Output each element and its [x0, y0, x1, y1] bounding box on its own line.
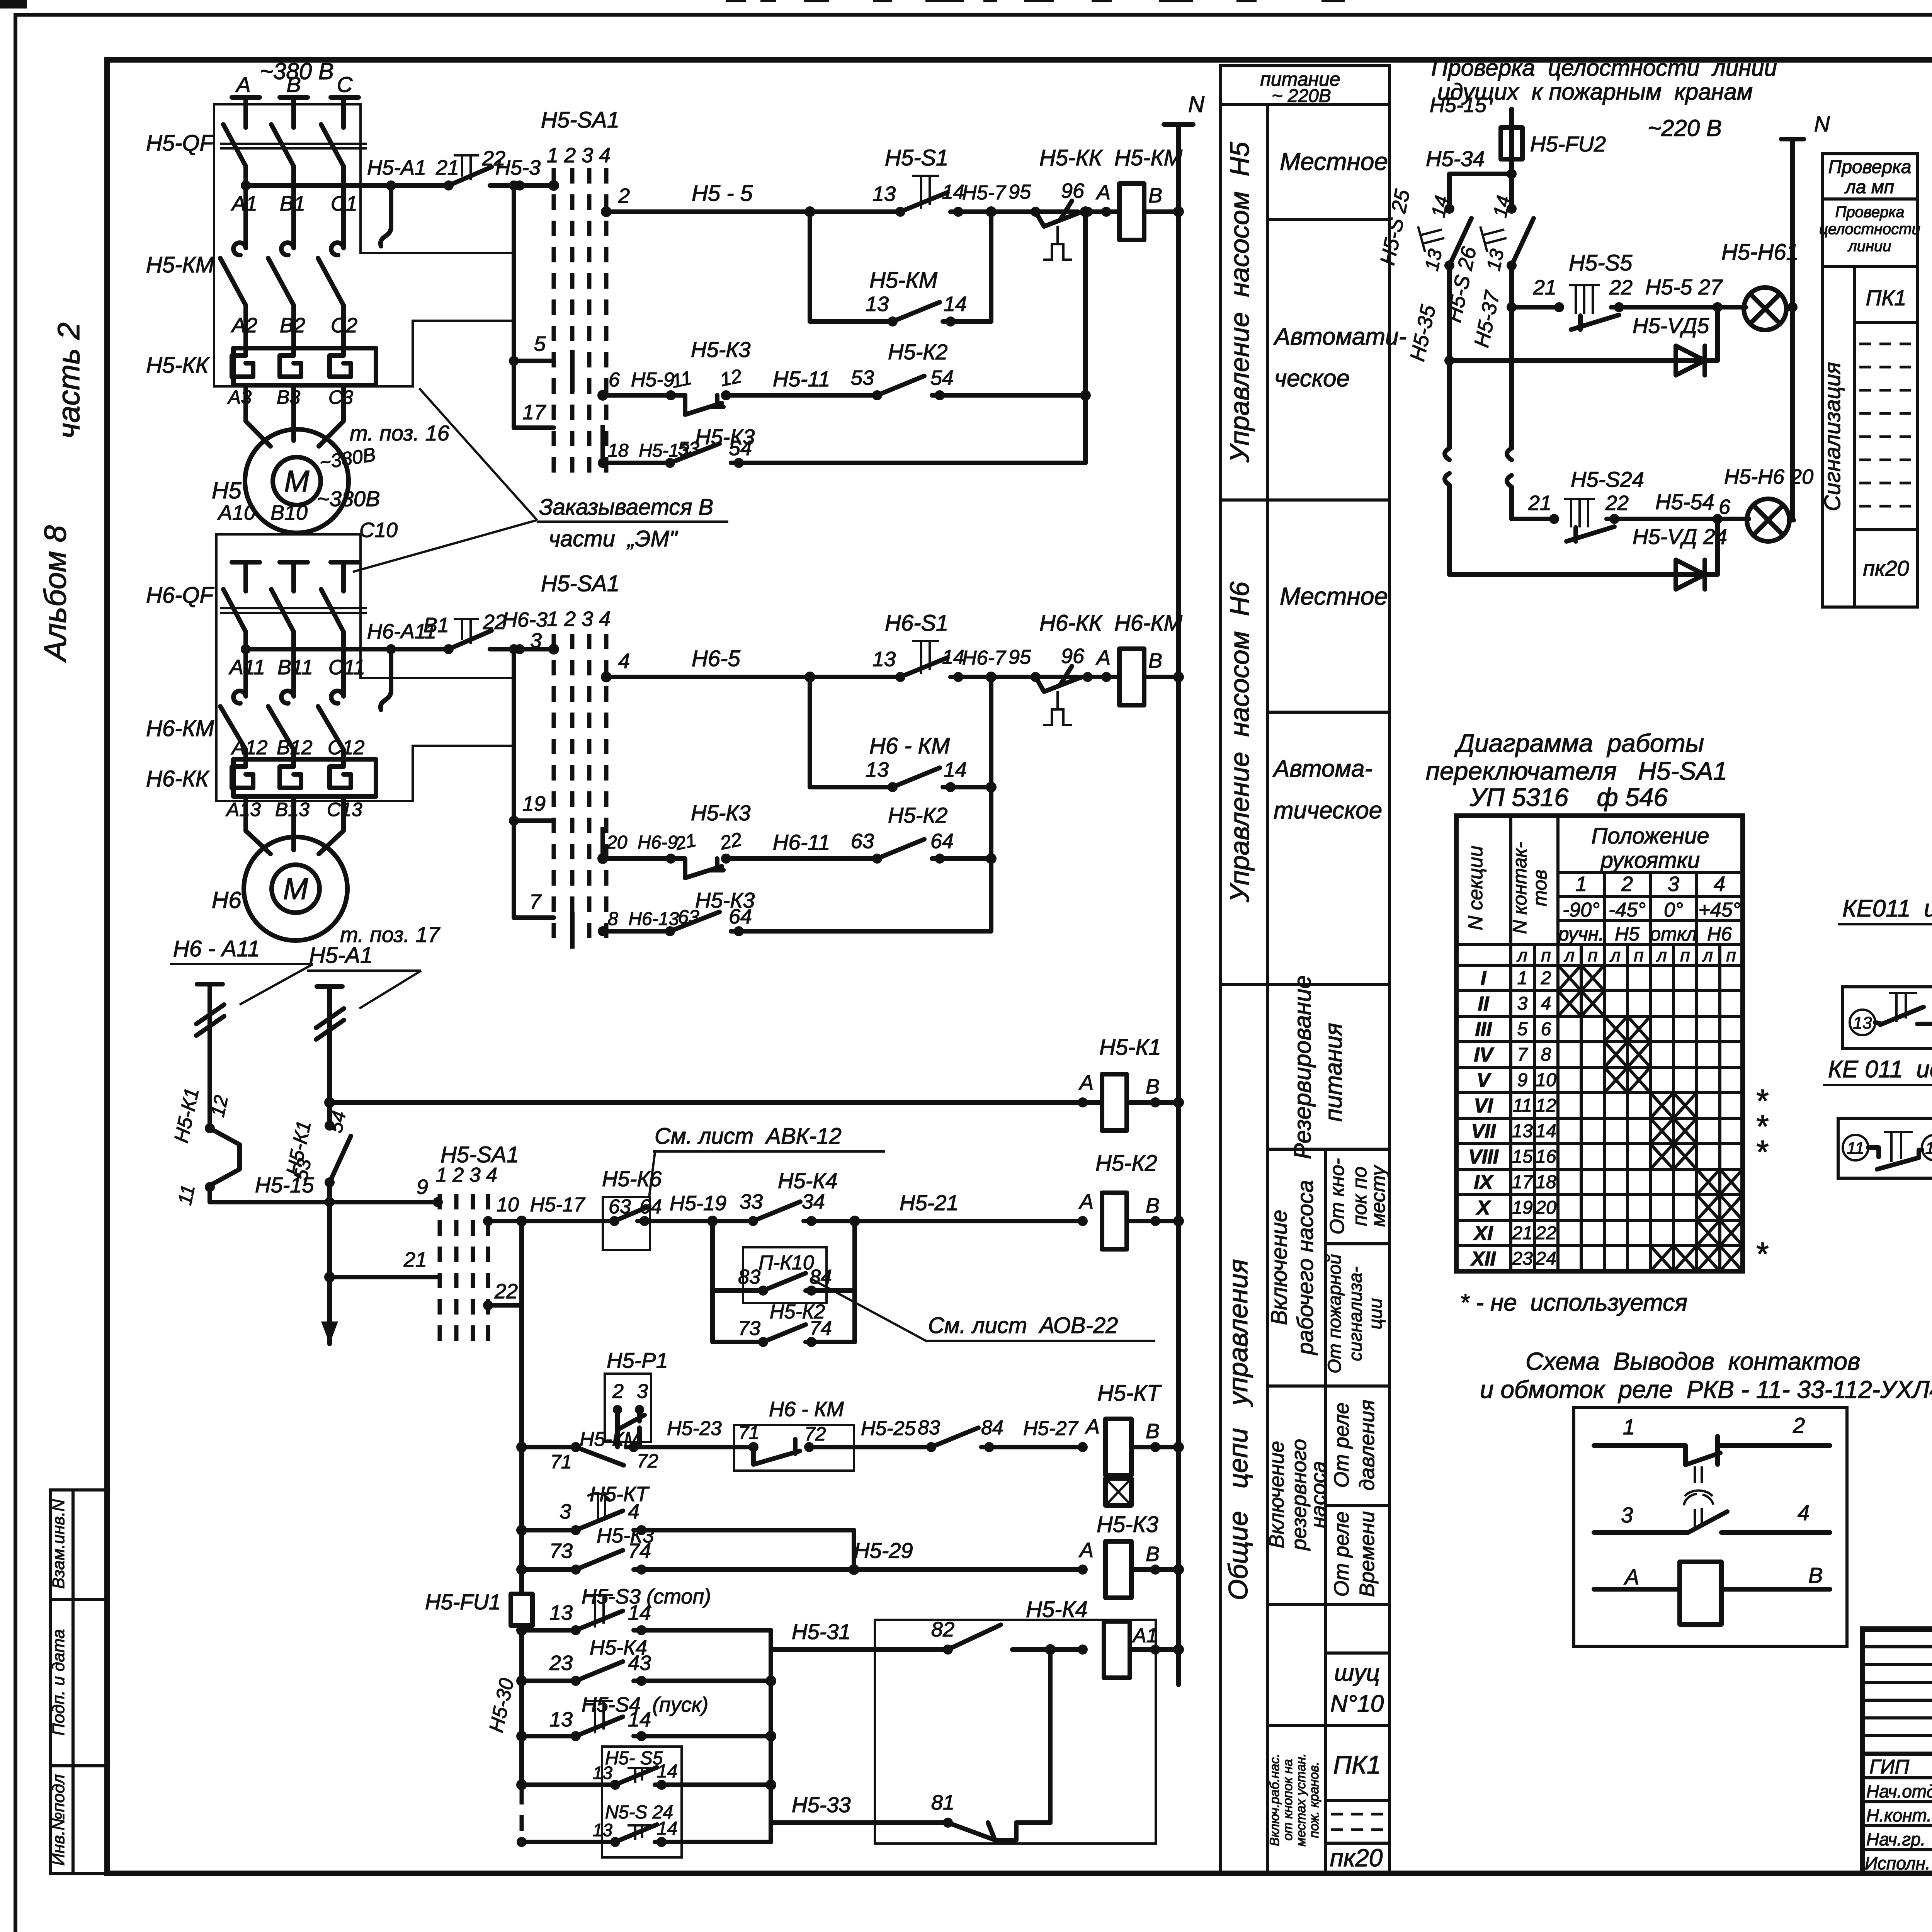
svg-text:А: А: [1078, 1071, 1094, 1094]
svg-text:13: 13: [872, 182, 896, 206]
svg-text:63: 63: [851, 830, 874, 853]
svg-text:33: 33: [740, 1190, 763, 1213]
svg-text:В: В: [1146, 1075, 1160, 1098]
parallel branch verticals: [710, 1221, 715, 1342]
svg-text:20 Н6-9: 20 Н6-9: [606, 832, 678, 853]
svg-text:А: А: [1624, 1565, 1639, 1589]
svg-text:+45°: +45°: [1698, 899, 1740, 921]
diode H5-VD5 branch: [1715, 307, 1720, 361]
svg-text:22: 22: [1609, 276, 1633, 299]
svg-text:4: 4: [628, 1500, 639, 1523]
A11 bus wire: [246, 647, 449, 651]
svg-text:Н6-7: Н6-7: [962, 647, 1007, 669]
svg-text:5: 5: [1517, 1019, 1528, 1039]
svg-text:71: 71: [550, 1451, 572, 1473]
DIAGRAM TABLE: [1426, 729, 1769, 1316]
svg-text:81: 81: [931, 1791, 954, 1814]
svg-text:п: п: [1541, 945, 1551, 965]
SCHEMA VYVODOV: [1480, 1347, 1932, 1646]
svg-text:Н5-27: Н5-27: [1023, 1417, 1079, 1440]
svg-text:3: 3: [637, 1380, 648, 1403]
diagram rows: [1468, 967, 1499, 1270]
svg-text:4: 4: [1541, 993, 1551, 1014]
fuse H5-FU2: [1501, 128, 1522, 159]
svg-text:Заказывается В: Заказывается В: [539, 495, 713, 520]
svg-text:96: 96: [1061, 645, 1085, 668]
svg-text:4: 4: [1798, 1500, 1810, 1525]
svg-text:N контак-: N контак-: [1509, 842, 1531, 934]
svg-text:Н5-54: Н5-54: [1655, 490, 1714, 514]
svg-text:ческое: ческое: [1274, 365, 1350, 392]
svg-text:2: 2: [1793, 1413, 1805, 1437]
svg-text:Н5-29: Н5-29: [854, 1538, 913, 1563]
svg-text:шуц: шуц: [1334, 1660, 1380, 1686]
circled 11: [1843, 1135, 1868, 1160]
svg-text:Н5-К4: Н5-К4: [1026, 1597, 1088, 1622]
svg-text:А: А: [235, 72, 250, 97]
upper lamp rung: [1507, 302, 1517, 312]
svg-text:Взам.инв.N: Взам.инв.N: [49, 1499, 68, 1589]
svg-text:питания: питания: [1320, 1023, 1347, 1122]
svg-text:Н5-QF: Н5-QF: [146, 131, 215, 156]
lower SA1 dashed lines: [440, 1194, 488, 1345]
svg-text:82: 82: [931, 1618, 954, 1641]
svg-text:13: 13: [1512, 1121, 1533, 1141]
svg-text:п: п: [1588, 945, 1597, 965]
svg-text:2: 2: [1541, 968, 1551, 988]
wire from H6-3 to SA1: [520, 647, 554, 651]
svg-text:-90°: -90°: [1563, 899, 1600, 921]
svg-text:21: 21: [435, 156, 459, 179]
svg-text:С12: С12: [328, 736, 364, 759]
22 link from SA1 to bus2: [483, 1300, 493, 1310]
svg-text:Н5-К3: Н5-К3: [1097, 1512, 1158, 1537]
svg-text:73: 73: [549, 1539, 573, 1563]
svg-text:13: 13: [593, 1820, 613, 1840]
svg-text:14: 14: [942, 181, 964, 203]
svg-text:Проверка: Проверка: [1828, 157, 1912, 177]
svg-text:Схема Выводов контактов: Схема Выводов контактов: [1526, 1347, 1860, 1375]
svg-text:*: *: [1755, 1134, 1769, 1170]
svg-text:См. лист АОВ-22: См. лист АОВ-22: [928, 1313, 1118, 1338]
svg-text:Н6-КМ: Н6-КМ: [146, 716, 214, 741]
svg-text:13: 13: [549, 1708, 573, 1731]
svg-text:71: 71: [738, 1423, 759, 1443]
svg-text:-45°: -45°: [1609, 899, 1646, 921]
svg-text:От реле: От реле: [1330, 1403, 1353, 1488]
svg-text:Н5-К1: Н5-К1: [1099, 1035, 1161, 1060]
svg-text:1: 1: [1575, 872, 1587, 896]
svg-text:ручн.: ручн.: [1558, 923, 1604, 945]
P-K10 box: [743, 1247, 827, 1303]
svg-text:19: 19: [522, 792, 546, 815]
svg-text:Н5-Н61: Н5-Н61: [1721, 240, 1799, 265]
svg-text:В: В: [1146, 1194, 1160, 1217]
svg-text:17: 17: [522, 401, 546, 424]
H5 equipment outline box: [214, 104, 514, 386]
bus2 vertical H5-30: [519, 1221, 524, 1594]
LOWER CONTROL: [170, 936, 1184, 1857]
svg-text:С10: С10: [359, 519, 398, 542]
branch node left H6: [804, 672, 815, 682]
svg-text:13: 13: [866, 293, 889, 316]
svg-text:23: 23: [549, 1651, 573, 1675]
svg-text:УП 5316 ф 546: УП 5316 ф 546: [1469, 783, 1668, 811]
svg-text:Альбом 8: Альбом 8: [38, 525, 72, 663]
svg-text:л: л: [1563, 945, 1575, 965]
svg-text:34: 34: [802, 1190, 825, 1213]
svg-text:В: В: [1148, 184, 1162, 207]
svg-text:Н5-К4: Н5-К4: [778, 1168, 837, 1193]
21 link: [330, 1275, 438, 1279]
rezerv rung to K1 coil: [330, 1100, 1101, 1105]
svg-text:6 Н5-9: 6 Н5-9: [609, 369, 675, 391]
svg-text:Н5-КК: Н5-КК: [146, 353, 210, 378]
svg-text:Управление насосом Н5: Управление насосом Н5: [1225, 141, 1255, 463]
svg-text:4: 4: [1714, 872, 1725, 896]
svg-text:Подп. и дата: Подп. и дата: [49, 1629, 68, 1735]
branch node left: [804, 206, 815, 217]
svg-text:13: 13: [866, 758, 889, 781]
svg-text:В: В: [286, 72, 301, 97]
svg-text:Н5-FU2: Н5-FU2: [1530, 132, 1606, 156]
svg-text:Н5-34: Н5-34: [1426, 146, 1485, 171]
svg-text:96: 96: [1061, 179, 1085, 202]
svg-text:В10: В10: [270, 501, 308, 524]
svg-text:л: л: [1516, 945, 1527, 965]
svg-text:п: п: [1680, 945, 1690, 965]
svg-text:Положение: Положение: [1591, 823, 1709, 849]
H5-A1 wire: [327, 986, 332, 1126]
svg-text:I: I: [1481, 967, 1487, 990]
H5-31 rung: [771, 1647, 948, 1652]
svg-text:IX: IX: [1474, 1171, 1494, 1194]
H5 POWER: [146, 58, 728, 572]
81 contact branch: [1048, 1650, 1053, 1823]
H5 CONTROL: [572, 92, 1204, 1685]
svg-text:14: 14: [628, 1601, 651, 1624]
svg-text:Н5-15: Н5-15: [1430, 94, 1487, 117]
svg-text:12: 12: [1536, 1095, 1556, 1116]
PROVERKA: [1376, 55, 1830, 589]
svg-text:переключателя Н5-SА1: переключателя Н5-SА1: [1426, 757, 1727, 785]
svg-text:местах устан.: местах устан.: [1294, 1753, 1308, 1846]
K6 contact box: [603, 1197, 650, 1250]
svg-text:1: 1: [1517, 968, 1528, 988]
svg-text:18: 18: [1536, 1172, 1556, 1192]
svg-text:Н5-11: Н5-11: [773, 367, 830, 391]
svg-text:21: 21: [1528, 492, 1551, 515]
svg-text:п: п: [1726, 945, 1736, 965]
svg-text:Включение: Включение: [1267, 1210, 1292, 1325]
svg-text:В: В: [1146, 1420, 1160, 1443]
svg-text:54: 54: [729, 437, 752, 460]
svg-text:С: С: [337, 72, 353, 97]
svg-text:С11: С11: [328, 656, 365, 679]
svg-text:сигнализа-: сигнализа-: [1345, 1266, 1366, 1361]
right vertical for K rungs: [1083, 212, 1088, 463]
self hold branch verticals: [808, 212, 812, 321]
svg-text:КЕ011 исп.4: КЕ011 исп.4: [1842, 895, 1932, 922]
svg-text:А1: А1: [1132, 1624, 1158, 1647]
svg-text:7: 7: [1517, 1044, 1529, 1065]
svg-text:Н6 - А11: Н6 - А11: [173, 936, 260, 961]
motor H5: [245, 429, 349, 533]
svg-text:Включение: Включение: [1265, 1441, 1288, 1548]
svg-text:0°: 0°: [1664, 899, 1683, 921]
svg-text:14: 14: [942, 646, 964, 668]
svg-text:Н6-КК: Н6-КК: [146, 766, 210, 791]
circled 12: [1922, 1135, 1932, 1160]
svg-text:22: 22: [1605, 492, 1629, 515]
svg-text:Проверка целостности линий: Проверка целостности линий: [1431, 55, 1777, 81]
svg-text:А: А: [1078, 1539, 1094, 1562]
svg-text:рукоятки: рукоятки: [1600, 848, 1700, 873]
K3 73-74 contact rung: [516, 1564, 527, 1575]
svg-text:откл: откл: [1650, 923, 1697, 945]
strip dashed cell: [1331, 1814, 1387, 1830]
left wire H5-35: [1447, 174, 1452, 209]
svg-text:Н5-S1: Н5-S1: [885, 145, 948, 170]
svg-text:21: 21: [1533, 276, 1556, 299]
svg-text:12: 12: [207, 1093, 232, 1119]
svg-text:давления: давления: [1355, 1400, 1379, 1490]
svg-text:11: 11: [1513, 1095, 1532, 1116]
svg-text:Н6-S1: Н6-S1: [885, 611, 948, 636]
svg-text:ции: ции: [1366, 1298, 1386, 1330]
svg-text:14: 14: [628, 1708, 651, 1731]
svg-text:~ 220В: ~ 220В: [1272, 86, 1331, 106]
svg-text:N°10: N°10: [1330, 1690, 1384, 1717]
svg-text:Н5-31: Н5-31: [792, 1619, 851, 1644]
svg-text:Автома-: Автома-: [1272, 755, 1372, 782]
svg-text:21: 21: [1512, 1223, 1532, 1243]
H6-1 wire with taps 19 and 7: [514, 649, 554, 918]
svg-text:95: 95: [1009, 646, 1031, 668]
svg-text:Н5-21: Н5-21: [900, 1190, 959, 1215]
svg-text:~220 В: ~220 В: [1648, 115, 1722, 141]
svg-text:КЕ 011 исп. 5: КЕ 011 исп. 5: [1828, 1056, 1932, 1083]
svg-text:ла мп: ла мп: [1844, 177, 1894, 197]
S5 post box: [602, 1747, 682, 1857]
S3 stop button rung: [516, 1625, 527, 1636]
svg-text:16: 16: [1536, 1146, 1556, 1167]
svg-text:А13: А13: [225, 799, 261, 820]
svg-text:14: 14: [657, 1761, 677, 1782]
svg-text:пк20: пк20: [1863, 556, 1909, 580]
main rung H5 wire: [606, 209, 900, 214]
svg-text:Н6-3: Н6-3: [502, 608, 548, 631]
svg-text:95: 95: [1009, 181, 1031, 203]
svg-text:Н5-КМ: Н5-КМ: [146, 252, 214, 277]
strip grid: [1220, 66, 1389, 1873]
svg-text:Включ.раб.нас.: Включ.раб.нас.: [1267, 1753, 1282, 1846]
right wire continues: [1509, 307, 1514, 448]
svg-text:Н5-К6: Н5-К6: [602, 1167, 662, 1191]
svg-text:ГИП: ГИП: [1869, 1756, 1909, 1778]
svg-text:15: 15: [1512, 1146, 1533, 1167]
svg-text:Н5-А1: Н5-А1: [367, 156, 426, 179]
fuse wire: [1509, 109, 1514, 209]
svg-text:В3: В3: [277, 386, 300, 408]
svg-text:Н5-25: Н5-25: [861, 1417, 916, 1440]
svg-text:Н5-S5: Н5-S5: [1569, 250, 1633, 276]
svg-text:Диаграмма работы: Диаграмма работы: [1454, 729, 1704, 757]
svg-text:20: 20: [1535, 1197, 1556, 1218]
svg-text:22: 22: [718, 828, 744, 854]
svg-text:Н6-11: Н6-11: [773, 830, 830, 854]
svg-text:тов: тов: [1529, 870, 1551, 906]
svg-text:V: V: [1477, 1069, 1492, 1092]
svg-text:Управление насосом Н6: Управление насосом Н6: [1225, 582, 1255, 903]
svg-text:А: А: [1085, 1415, 1100, 1438]
svg-text:Местное: Местное: [1280, 582, 1388, 610]
svg-text:М: М: [284, 464, 310, 498]
svg-text:N: N: [1814, 112, 1830, 136]
svg-text:VI: VI: [1474, 1095, 1493, 1117]
svg-text:9: 9: [417, 1175, 428, 1199]
svg-text:21: 21: [403, 1248, 427, 1271]
svg-text:Н5- S5: Н5- S5: [605, 1748, 663, 1769]
crosslink top: [1449, 172, 1512, 176]
KT rung from bus2: [516, 1442, 527, 1452]
svg-text:В1: В1: [423, 614, 449, 637]
svg-text:64: 64: [639, 1196, 662, 1218]
SA1 dashed section lines H6: [554, 634, 606, 949]
svg-text:Н5-S24: Н5-S24: [1571, 467, 1644, 492]
KT delayed contact rung: [516, 1525, 527, 1536]
KE011 isp4 box: [1842, 987, 1932, 1049]
svg-text:Н5-К3: Н5-К3: [691, 337, 750, 362]
svg-text:ПК1: ПК1: [1866, 286, 1906, 310]
circled 13: [1850, 1010, 1875, 1035]
right vertical for K rungs H6: [989, 787, 993, 931]
svg-text:22: 22: [1535, 1223, 1556, 1243]
SIGTABLE: [1819, 154, 1920, 607]
svg-text:л: л: [1609, 945, 1621, 965]
svg-text:II: II: [1478, 993, 1490, 1015]
svg-text:Исполн.: Исполн.: [1865, 1853, 1930, 1873]
svg-text:Времени: Времени: [1355, 1511, 1379, 1597]
RE011 isp5 box: [1838, 1118, 1932, 1178]
svg-text:пк20: пк20: [1330, 1844, 1383, 1872]
svg-text:От реле: От реле: [1330, 1512, 1353, 1597]
svg-text:Н.конт.: Н.конт.: [1866, 1805, 1932, 1825]
svg-text:12: 12: [1925, 1139, 1932, 1158]
svg-text:Н5: Н5: [1615, 923, 1639, 945]
svg-text:6: 6: [1541, 1019, 1551, 1039]
svg-text:Н5: Н5: [212, 478, 241, 503]
svg-text:* - не используется: * - не используется: [1460, 1289, 1687, 1316]
svg-text:от кнопок на: от кнопок на: [1281, 1759, 1295, 1840]
motor H6: [244, 837, 347, 940]
svg-text:12: 12: [718, 365, 744, 390]
svg-text:месту: месту: [1367, 1165, 1389, 1227]
svg-text:13: 13: [593, 1763, 613, 1783]
svg-text:Н5-33: Н5-33: [792, 1793, 851, 1817]
svg-text:1 2 3 4: 1 2 3 4: [436, 1164, 497, 1186]
svg-text:л: л: [1656, 945, 1667, 965]
svg-text:Н5-Н6 20: Н5-Н6 20: [1724, 465, 1813, 488]
svg-text:N: N: [1188, 92, 1204, 117]
diagram X marks: [1558, 965, 1743, 1271]
svg-text:11: 11: [1847, 1139, 1864, 1158]
svg-text:54: 54: [930, 366, 954, 389]
svg-text:74: 74: [628, 1539, 651, 1563]
svg-text:84: 84: [981, 1417, 1003, 1439]
svg-text:Н5-19: Н5-19: [670, 1192, 726, 1215]
svg-text:Н5-3: Н5-3: [495, 156, 541, 179]
H6 POWER: [146, 486, 619, 949]
svg-text:VII: VII: [1471, 1120, 1496, 1143]
svg-text:1 2 3 4: 1 2 3 4: [547, 144, 611, 167]
svg-text:А: А: [1095, 181, 1111, 204]
svg-text:N секции: N секции: [1464, 845, 1487, 930]
svg-text:3: 3: [1621, 1503, 1633, 1527]
KE011: [1823, 895, 1932, 1178]
H5-1 wire with taps 5 and 17: [514, 185, 554, 428]
svg-text:VIII: VIII: [1468, 1146, 1499, 1168]
TITLE BLOCK: [1862, 1480, 1932, 1876]
svg-text:IV: IV: [1474, 1044, 1494, 1066]
svg-text:10: 10: [1536, 1070, 1556, 1090]
svg-text:ПК1: ПК1: [1333, 1750, 1381, 1779]
svg-text:17: 17: [1512, 1172, 1534, 1192]
svg-text:Н6: Н6: [1707, 923, 1732, 945]
svg-text:А: А: [1078, 1190, 1094, 1213]
svg-text:и обмоток реле РКВ - 11- 33-: и обмоток реле РКВ - 11- 33-112-УХЛ4: [1480, 1376, 1932, 1403]
svg-text:Н6: Н6: [212, 887, 241, 913]
svg-text:Н5-Р1: Н5-Р1: [607, 1348, 668, 1372]
SA1 closure marks H6: [570, 912, 575, 949]
svg-text:83: 83: [918, 1417, 940, 1439]
svg-text:часть 2: часть 2: [51, 322, 86, 439]
svg-text:Н5-7: Н5-7: [962, 182, 1007, 204]
svg-text:21: 21: [673, 830, 698, 854]
svg-text:Проверка: Проверка: [1835, 204, 1904, 221]
svg-text:1 2 3 4: 1 2 3 4: [547, 607, 611, 631]
self hold branch verticals H6: [808, 677, 812, 787]
svg-text:Н5-SА1: Н5-SА1: [541, 107, 619, 133]
svg-text:Н6-5: Н6-5: [692, 646, 740, 671]
svg-text:3: 3: [1668, 872, 1679, 896]
svg-text:2: 2: [1621, 872, 1633, 896]
svg-text:4: 4: [618, 650, 630, 673]
H6 equipment outline box: [216, 534, 514, 801]
svg-text:целостности: целостности: [1819, 221, 1920, 238]
svg-text:С2: С2: [331, 314, 357, 337]
svg-text:л: л: [1702, 945, 1713, 965]
svg-text:14: 14: [657, 1818, 677, 1839]
SA1 closure marks: [570, 350, 575, 392]
svg-text:Инв.№подл: Инв.№подл: [49, 1774, 68, 1866]
branch node right: [986, 206, 997, 217]
branch node right H6: [986, 672, 997, 682]
node 2: [601, 206, 612, 217]
svg-text:8: 8: [1541, 1044, 1551, 1065]
svg-text:Н5-КК Н5-КМ: Н5-КК Н5-КМ: [1039, 145, 1183, 170]
svg-text:П-К10: П-К10: [759, 1252, 814, 1274]
svg-text:1: 1: [1623, 1415, 1635, 1439]
svg-text:*: *: [1755, 1236, 1769, 1272]
svg-text:насоса: насоса: [1307, 1461, 1330, 1528]
signature rows: [1865, 1756, 1932, 1874]
big relay box: [875, 1620, 1156, 1844]
svg-text:14: 14: [944, 758, 967, 781]
svg-text:Н5-FU1: Н5-FU1: [425, 1590, 501, 1614]
svg-text:В: В: [1148, 649, 1162, 672]
svg-text:72: 72: [637, 1450, 658, 1472]
